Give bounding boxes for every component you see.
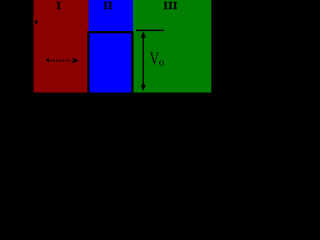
V0 arrowhead down [141, 85, 146, 91]
svg-text:II: II [103, 1, 113, 12]
region II (blue span) [89, 0, 134, 93]
dashed arrow right head [71, 58, 79, 64]
left-edge tick arrowhead [35, 19, 38, 25]
V0 arrow shaft [142, 34, 144, 88]
svg-text:I: I [56, 1, 60, 12]
region III (green span) [133, 0, 211, 93]
dashed arrow (incident particle, region I) [50, 60, 71, 62]
well outline (black walls of region II) [88, 32, 132, 92]
dashed arrow left head [46, 58, 49, 62]
V0 arrowhead up [141, 31, 146, 37]
svg-text:o: o [159, 57, 165, 69]
svg-text:III: III [164, 1, 178, 12]
region I (darkred span) [34, 0, 89, 93]
V0 reference line [136, 29, 164, 31]
